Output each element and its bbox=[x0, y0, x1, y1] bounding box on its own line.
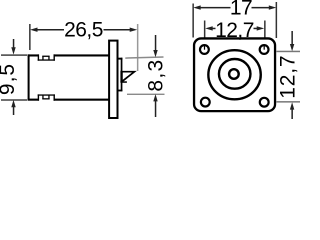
barrel left edge bbox=[28, 54, 30, 100]
barrel top edge right of notch bbox=[54, 54, 110, 56]
wire: dimension 12,7 top extension line right bbox=[264, 21, 266, 38]
wire: 8,3 extension line bottom (gray) bbox=[127, 94, 165, 95]
solder lug (flag) bbox=[122, 72, 134, 82]
wire: dimension 9,5 extension line top bbox=[1, 54, 27, 55]
connector middle circle bbox=[219, 59, 251, 89]
dimension 12,7 right top arrow (outside, pointing down) bbox=[291, 31, 293, 45]
bottom notch left wall bbox=[38, 94, 39, 100]
top notch right wall bbox=[54, 54, 55, 60]
connector outer shell circle bbox=[208, 50, 260, 99]
top tab top edge bbox=[42, 56, 49, 57]
wire: dimension 17 extension line left bbox=[192, 4, 194, 38]
solder lug left edge bbox=[120, 71, 122, 83]
svg-text:17: 17 bbox=[230, 0, 252, 20]
dimension 9,5 top arrow (outside, pointing down) bbox=[13, 39, 15, 49]
wire: dimension 26,5 extension line right (gray, down to pin tip) bbox=[137, 24, 139, 71]
rear insulator back edge bbox=[121, 58, 123, 91]
bottom tab right wall bbox=[48, 95, 49, 99]
dimension 26,5 line right segment with arrow bbox=[130, 28, 138, 32]
mounting flange (edge view) bbox=[109, 41, 117, 118]
screw hole bottom-right bbox=[260, 98, 269, 107]
rear insulator step bottom bbox=[118, 90, 122, 92]
dimension 17 line right segment with arrow bbox=[269, 5, 277, 9]
dimension 12,7 top left arrow (inside, pointing left) bbox=[205, 26, 213, 30]
screw hole top-right bbox=[260, 45, 269, 54]
wire: dimension 26,5 extension line left bbox=[29, 24, 31, 50]
barrel top edge left of notch bbox=[28, 54, 39, 56]
screw hole bottom-left bbox=[201, 98, 210, 107]
barrel bottom edge left of notch bbox=[28, 99, 39, 101]
svg-text:26,5: 26,5 bbox=[64, 19, 103, 42]
wire: dimension 12,7 top extension line left bbox=[204, 21, 206, 38]
top notch floor bbox=[38, 59, 55, 60]
wire: 8,3 extension line top (gray) bbox=[125, 57, 163, 58]
rear insulator step top bbox=[118, 58, 122, 60]
wire: dimension 17 extension line right bbox=[276, 2, 278, 38]
dimension 17 line left segment with arrow bbox=[193, 5, 201, 9]
wire: dimension 12,7 right extension line bottom bbox=[276, 101, 300, 103]
dimension 8,3 bottom arrow (outside, pointing up) bbox=[155, 101, 157, 117]
bottom tab bottom edge bbox=[42, 98, 49, 99]
dimension 9,5 bottom arrow (outside, pointing up) bbox=[13, 106, 15, 115]
top tab right wall bbox=[48, 56, 49, 60]
bottom notch right wall bbox=[54, 94, 55, 100]
svg-text:9,5: 9,5 bbox=[0, 63, 19, 95]
dimension 8,3 top arrow (outside, pointing down) bbox=[155, 35, 157, 50]
top tab left wall bbox=[42, 56, 43, 60]
connector center pin circle bbox=[229, 69, 239, 79]
barrel bottom edge right of notch bbox=[54, 99, 110, 101]
top notch left wall bbox=[38, 54, 39, 60]
svg-text:8,3: 8,3 bbox=[145, 59, 168, 92]
bottom tab left wall bbox=[42, 95, 43, 99]
bottom notch ceiling bbox=[38, 94, 55, 95]
dimension 12,7 top right arrow (inside, pointing right) bbox=[257, 26, 265, 30]
svg-text:12,7: 12,7 bbox=[276, 55, 299, 99]
dimension 26,5 line left segment with arrow bbox=[30, 28, 38, 32]
wire: dimension 9,5 extension line bottom bbox=[1, 99, 27, 100]
dimension 12,7 right bottom arrow (outside, pointing up) bbox=[291, 109, 293, 119]
wire: dimension 12,7 right extension line top bbox=[276, 51, 300, 53]
flange plate front face bbox=[194, 38, 275, 111]
screw hole top-left bbox=[200, 45, 209, 54]
